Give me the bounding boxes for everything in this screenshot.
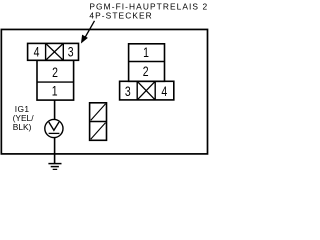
svg-text:2: 2: [52, 65, 58, 81]
leader arrow to connector: [82, 21, 95, 43]
svg-text:BLK): BLK): [13, 122, 32, 132]
svg-text:3: 3: [125, 83, 131, 99]
svg-text:2: 2: [143, 64, 149, 80]
label: PGM-FI-HAUPTRELAIS 2 / 4P-STECKER: [89, 1, 208, 20]
divider: [129, 61, 165, 63]
svg-text:1: 1: [52, 83, 58, 99]
divider: [37, 81, 74, 83]
spare terminal block (two cells with diagonals): [90, 103, 107, 141]
node IG1 (YEL/BLK) label: [13, 104, 35, 132]
connector right: body cells 1 / 2: [129, 44, 165, 82]
connector left: pin row 4 / X / 3: [28, 43, 79, 60]
connector left: body cells 2 / 1: [37, 60, 74, 100]
connector right: pin row 3 / X / 4: [120, 81, 174, 100]
X mark (unused pin): [137, 81, 155, 100]
wire: voltmeter to ground: [54, 138, 56, 164]
divider: [62, 43, 64, 60]
wire: pin 1 to voltmeter: [54, 100, 56, 120]
relay body outline: [1, 29, 207, 153]
svg-text:3: 3: [68, 44, 74, 60]
ground: [48, 164, 61, 170]
divider: [154, 81, 156, 100]
svg-text:4: 4: [161, 83, 167, 99]
svg-text:1: 1: [143, 44, 149, 60]
svg-text:4P-STECKER: 4P-STECKER: [89, 11, 152, 21]
svg-text:4: 4: [34, 44, 40, 60]
divider: [45, 43, 47, 60]
divider: [136, 81, 138, 100]
X mark (unused pin): [46, 43, 64, 60]
voltmeter probe symbol: [45, 119, 63, 137]
